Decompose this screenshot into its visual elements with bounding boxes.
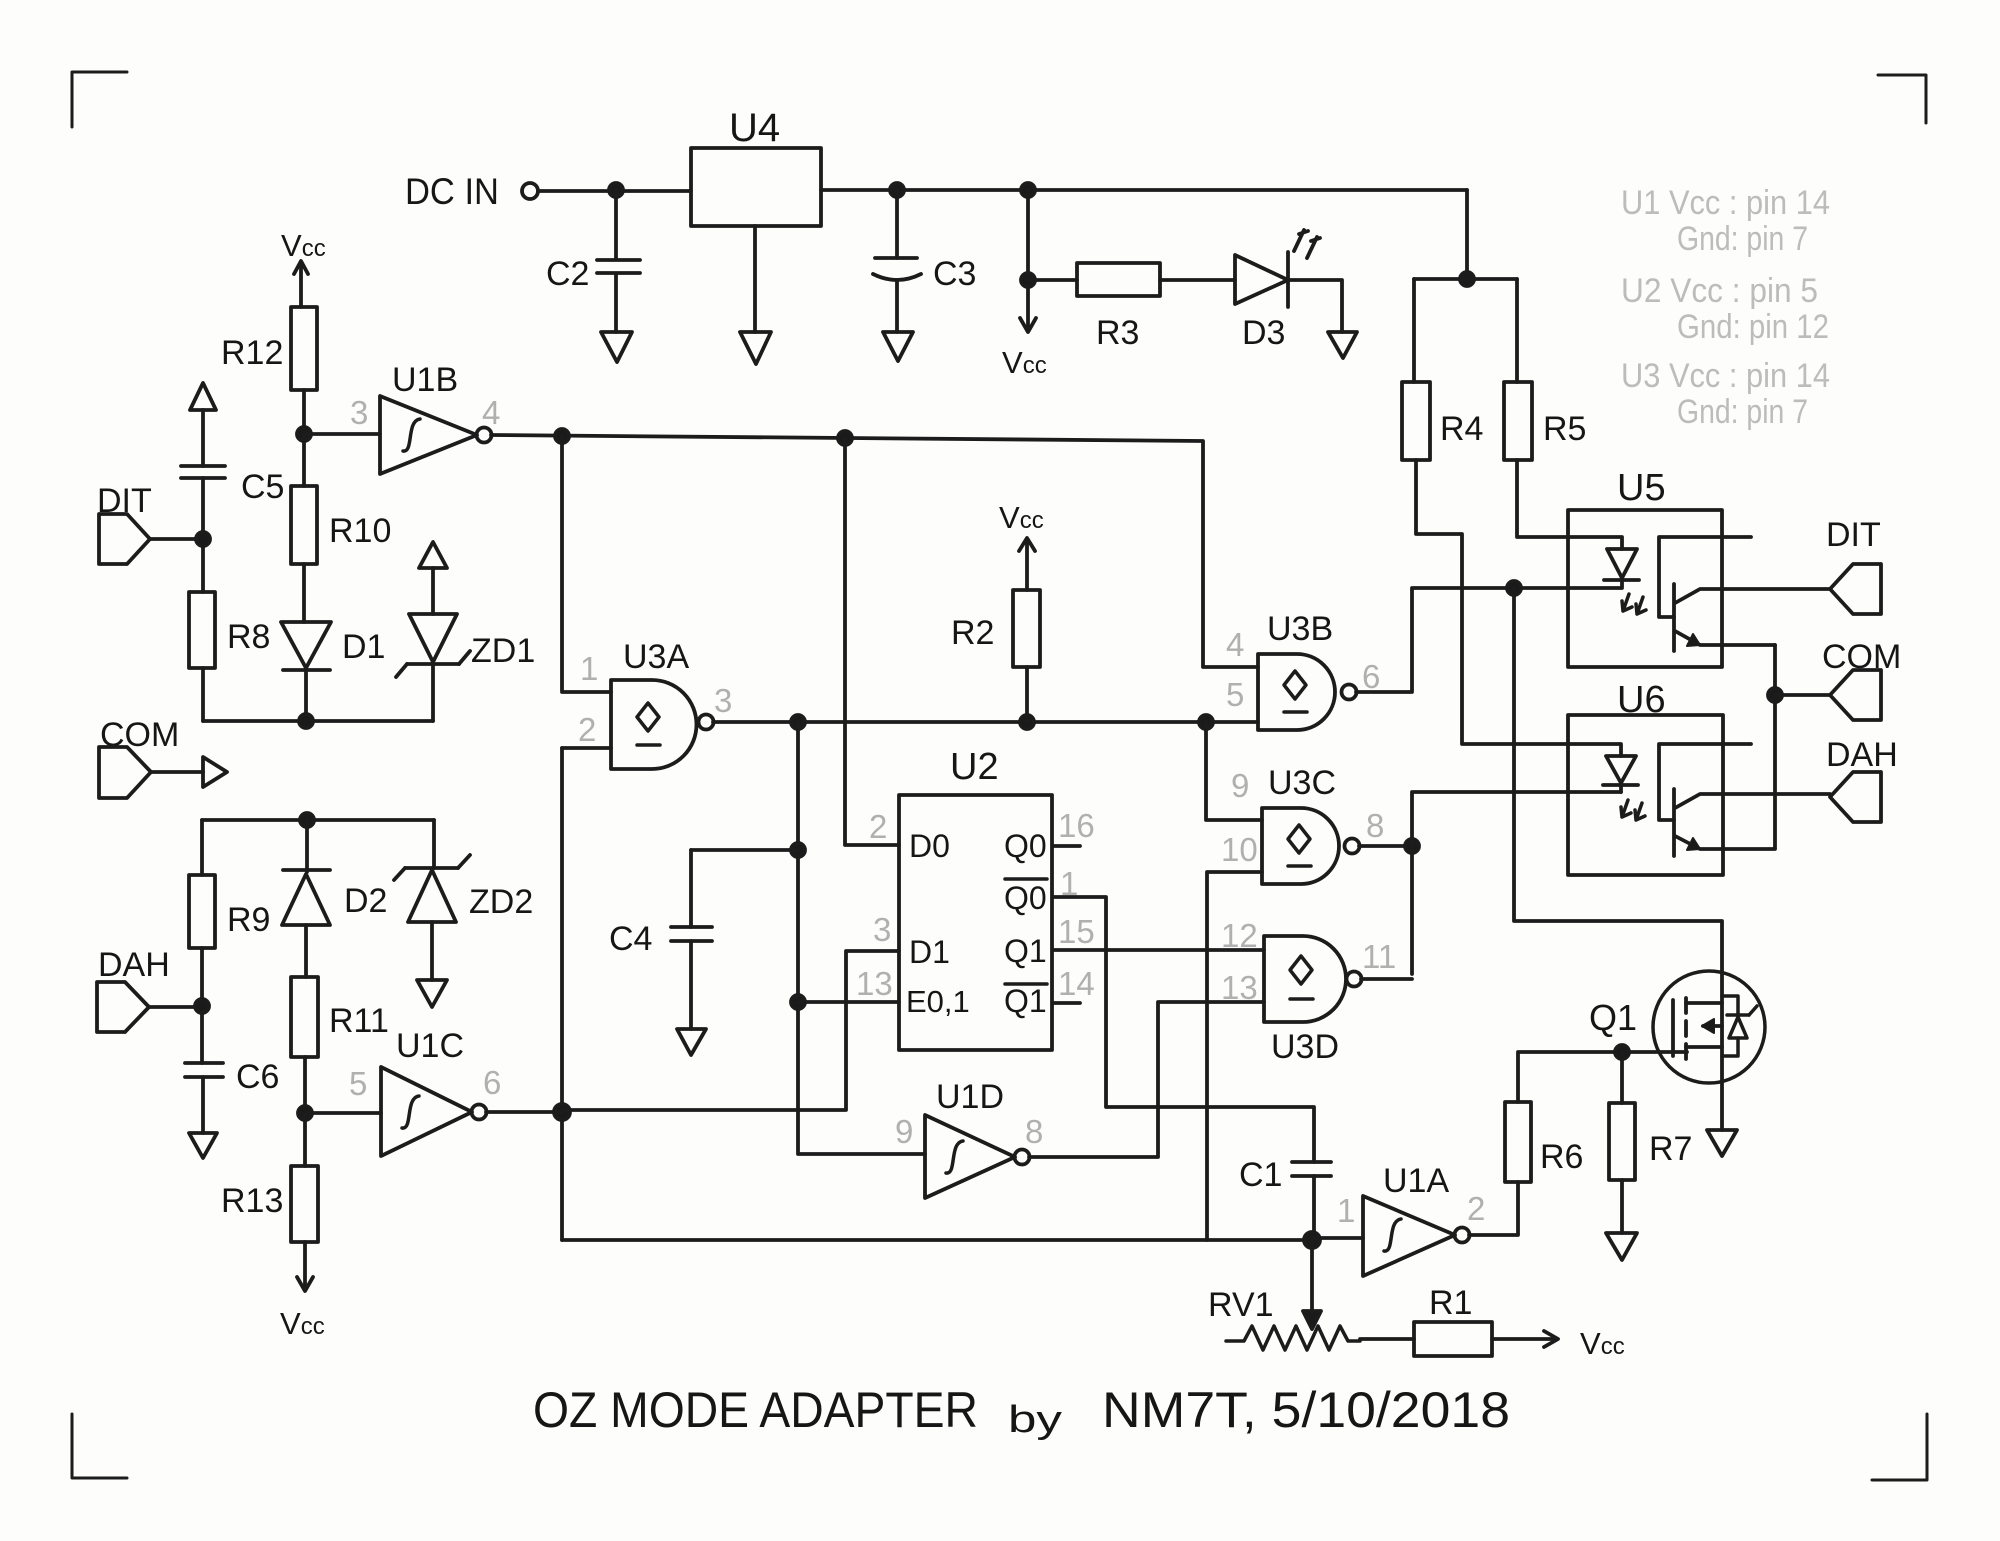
svg-text:U1A: U1A xyxy=(1383,1162,1449,1200)
transistor Q1 gate and channel xyxy=(1673,998,1722,1059)
wire U3A output rail to U3B pin5 xyxy=(713,720,1258,724)
node at C2 tap xyxy=(609,183,623,197)
svg-text:U3C: U3C xyxy=(1268,764,1336,802)
svg-text:DAH: DAH xyxy=(98,946,170,984)
svg-text:C5: C5 xyxy=(241,468,284,506)
transistor Q1 circle xyxy=(1589,971,1765,1083)
svg-text:Gnd: pin 12: Gnd: pin 12 xyxy=(1677,308,1829,346)
node rail to U3A input1 xyxy=(555,429,569,443)
svg-text:3: 3 xyxy=(873,911,891,948)
potentiometer RV1 body xyxy=(1226,1326,1360,1350)
potentiometer RV1 wiper xyxy=(1208,1240,1321,1329)
ground below C3 xyxy=(883,332,913,361)
svg-text:R11: R11 xyxy=(329,1002,389,1040)
svg-text:ZD1: ZD1 xyxy=(471,632,535,670)
svg-text:U5: U5 xyxy=(1617,467,1666,509)
optocoupler U5 LED xyxy=(1604,549,1639,588)
svg-text:1: 1 xyxy=(1337,1192,1355,1229)
wire R5 to U5 LED anode xyxy=(1517,460,1622,549)
wire RV1 to R1 xyxy=(1360,1337,1414,1341)
wire DC IN input rail xyxy=(538,190,1467,191)
resistor R4 xyxy=(1402,382,1483,460)
svg-text:Q0: Q0 xyxy=(1004,880,1047,916)
nand U3D xyxy=(1264,936,1362,1066)
svg-text:5: 5 xyxy=(1226,676,1244,713)
svg-text:3: 3 xyxy=(350,394,368,431)
svg-text:R8: R8 xyxy=(227,618,270,656)
optocoupler U5 phototransistor xyxy=(1659,537,1830,651)
svg-text:OZ MODE ADAPTER: OZ MODE ADAPTER xyxy=(533,1382,978,1438)
svg-text:U3B: U3B xyxy=(1267,610,1333,648)
pin numbers U3D 12 13 11 xyxy=(1221,917,1396,1006)
node U1B input xyxy=(297,427,311,441)
svg-text:U3D: U3D xyxy=(1271,1028,1339,1066)
wire D3 to ground xyxy=(1288,280,1342,332)
resistor R2 xyxy=(951,590,1040,667)
svg-text:U4: U4 xyxy=(729,106,780,150)
svg-text:R7: R7 xyxy=(1649,1130,1692,1168)
diode D2 xyxy=(282,820,387,925)
nand U3B xyxy=(1258,610,1357,730)
wire R2 to rail xyxy=(1025,667,1029,722)
resistor R1 xyxy=(1414,1284,1492,1356)
pin numbers U1D 9 8 xyxy=(895,1113,1043,1150)
inverter U1D xyxy=(925,1078,1030,1198)
svg-text:DIT: DIT xyxy=(1826,516,1881,554)
svg-text:Gnd: pin 7: Gnd: pin 7 xyxy=(1677,220,1808,258)
power Vcc below R13 xyxy=(280,1242,325,1341)
transistor Q1 body diode xyxy=(1722,996,1757,1056)
capacitor C2 xyxy=(546,190,640,332)
svg-text:U2: U2 xyxy=(950,746,999,788)
wire DAH pull network top tie xyxy=(202,818,434,822)
svg-text:U1 Vcc : pin 14: U1 Vcc : pin 14 xyxy=(1621,184,1830,222)
wire U1B output rail to U3B pin4 xyxy=(491,435,1258,667)
svg-text:2: 2 xyxy=(1467,1190,1485,1227)
node U5 cathode to Q1 drain xyxy=(1507,581,1521,595)
pin numbers U2 left 2 3 13 xyxy=(856,808,893,1002)
svg-text:U1C: U1C xyxy=(396,1027,464,1065)
svg-text:10: 10 xyxy=(1221,831,1258,868)
svg-text:U3A: U3A xyxy=(623,638,689,676)
wire Q1bar stub pin14 xyxy=(1053,1001,1080,1005)
wire to COM connector xyxy=(1775,693,1830,697)
wire R12 to node xyxy=(302,390,306,434)
ground below C6 xyxy=(189,1133,217,1158)
connector DAH right xyxy=(1826,736,1898,822)
svg-text:R1: R1 xyxy=(1429,1284,1472,1322)
wire R10 to D1 xyxy=(302,564,306,622)
note U1 U2 U3 supply pins (gray) xyxy=(1621,184,1830,431)
wire C5 to DIT node xyxy=(201,478,205,592)
wire U3D output xyxy=(1361,977,1412,981)
connector DAH left xyxy=(97,946,202,1032)
svg-text:4: 4 xyxy=(1226,626,1244,663)
node at Vcc tap xyxy=(1021,183,1035,197)
wire R4 R5 top tie xyxy=(1414,279,1517,382)
node COM tie xyxy=(1768,688,1782,702)
power Vcc above R2 xyxy=(999,500,1044,590)
wire R6 to Q1 gate rail xyxy=(1518,1052,1687,1102)
node DAH xyxy=(195,999,209,1013)
wire U3A input2 riser from U1C net xyxy=(562,748,611,1240)
node U3C input9 tap xyxy=(1199,715,1213,729)
nand U3A xyxy=(611,638,714,769)
svg-text:R12: R12 xyxy=(221,334,283,372)
wire to R3 xyxy=(1028,278,1077,282)
wire ZD2 to ground xyxy=(430,922,434,980)
svg-text:6: 6 xyxy=(1362,658,1380,695)
wire U3C input9 xyxy=(1206,722,1262,820)
nand U3C xyxy=(1262,764,1360,884)
svg-text:D0: D0 xyxy=(909,828,950,864)
zener ZD1 xyxy=(396,614,535,677)
optocoupler U6 box xyxy=(1568,679,1723,875)
svg-text:C4: C4 xyxy=(609,920,652,958)
resistor R9 xyxy=(189,820,270,948)
svg-text:R9: R9 xyxy=(227,901,270,939)
wire U3B output to U5 cathode xyxy=(1356,588,1621,692)
latch U2 xyxy=(899,746,1052,1050)
node D1 bottom xyxy=(299,714,313,728)
inverter U1C xyxy=(305,1027,487,1156)
svg-text:U1D: U1D xyxy=(936,1078,1004,1116)
svg-text:U2 Vcc : pin 5: U2 Vcc : pin 5 xyxy=(1621,272,1818,310)
svg-text:by: by xyxy=(1008,1399,1062,1441)
resistor R13 xyxy=(221,1113,318,1242)
connector DIT left xyxy=(97,482,203,564)
wire Q0 stub pin16 xyxy=(1053,844,1080,848)
wire x798 riser to U1D input xyxy=(798,722,925,1154)
node C4 tap xyxy=(791,843,805,857)
svg-text:C2: C2 xyxy=(546,255,589,293)
power arrow above C5 xyxy=(190,383,216,466)
diode D1 xyxy=(281,622,385,670)
resistor R11 xyxy=(291,977,389,1057)
title text xyxy=(533,1382,1510,1441)
svg-text:15: 15 xyxy=(1058,913,1095,950)
wire R8 to bottom xyxy=(201,668,205,721)
wire U3C output xyxy=(1359,844,1412,848)
ground below C2 xyxy=(601,332,632,362)
pin numbers U3A 1 2 3 xyxy=(578,650,732,748)
svg-text:8: 8 xyxy=(1025,1113,1043,1150)
wire ZD1 to bottom xyxy=(431,666,435,721)
node U3C U3D outputs xyxy=(1405,839,1419,853)
optocoupler U5 box xyxy=(1568,467,1722,667)
wire DIT pulldown bottom tie xyxy=(203,719,433,723)
inverter U1A xyxy=(1312,1162,1470,1276)
capacitor C1 xyxy=(1239,1156,1331,1194)
node at C3 tap xyxy=(890,183,904,197)
svg-text:14: 14 xyxy=(1058,965,1095,1002)
power Vcc above R12 xyxy=(281,228,326,307)
connector J DC IN label xyxy=(405,171,499,212)
svg-text:1: 1 xyxy=(580,650,598,687)
wire U1A output to R6 xyxy=(1469,1182,1518,1235)
connector DIT right xyxy=(1826,516,1881,614)
capacitor C5 xyxy=(181,466,284,506)
pin numbers U2 right 16 1 15 14 xyxy=(1058,807,1095,1002)
svg-text:9: 9 xyxy=(1231,767,1249,804)
wire U5 emitter to COM riser xyxy=(1773,645,1777,848)
pin numbers U1C 5 6 xyxy=(349,1064,501,1102)
ground below R7 xyxy=(1606,1233,1637,1260)
resistor R3 xyxy=(1077,263,1160,352)
wire D1 to bottom xyxy=(304,670,308,721)
svg-text:R10: R10 xyxy=(329,512,391,550)
svg-text:RV1: RV1 xyxy=(1208,1286,1274,1324)
svg-text:D2: D2 xyxy=(344,882,387,920)
resistor R12 xyxy=(221,307,317,390)
LED D3 xyxy=(1235,230,1320,352)
zener ZD2 xyxy=(394,820,533,922)
resistor R6 xyxy=(1505,1102,1583,1182)
wire D2 to R11 xyxy=(304,925,308,977)
svg-text:R3: R3 xyxy=(1096,314,1139,352)
svg-text:12: 12 xyxy=(1221,917,1258,954)
node U3A rail at x798 xyxy=(791,715,805,729)
wire input rail corner down to R4 R5 xyxy=(1465,190,1469,279)
svg-text:DC IN: DC IN xyxy=(405,171,499,212)
svg-text:Q1: Q1 xyxy=(1004,933,1047,969)
capacitor C6 xyxy=(185,1058,279,1096)
pin numbers U3B 4 5 6 xyxy=(1226,626,1380,713)
svg-text:Q1: Q1 xyxy=(1004,983,1047,1019)
wire R9 to DAH node xyxy=(200,948,204,1063)
svg-text:R13: R13 xyxy=(221,1182,283,1220)
resistor R8 xyxy=(189,592,270,668)
ground below C4 xyxy=(677,1029,706,1055)
wire C4 to ground xyxy=(689,941,693,1029)
COM off page arrow xyxy=(203,757,227,787)
svg-text:D3: D3 xyxy=(1242,314,1285,352)
wire U4 ground lead xyxy=(753,226,757,332)
svg-text:C1: C1 xyxy=(1239,1156,1282,1194)
svg-text:C3: C3 xyxy=(933,255,976,293)
wire R3 to D3 xyxy=(1160,278,1235,282)
optocoupler U6 light arrows xyxy=(1621,800,1645,820)
wire C4 branch xyxy=(691,850,798,927)
connector COM left xyxy=(99,716,203,798)
svg-text:U1B: U1B xyxy=(392,361,458,399)
svg-text:8: 8 xyxy=(1366,807,1384,844)
ground after D3 xyxy=(1328,332,1357,358)
svg-text:4: 4 xyxy=(482,394,500,431)
optocoupler U6 LED xyxy=(1603,756,1638,792)
wire U3C U3D output riser to U6 cathode xyxy=(1412,792,1621,974)
ground below Q1 xyxy=(1707,1130,1737,1156)
resistor R5 xyxy=(1504,382,1586,460)
node R2 bottom xyxy=(1020,715,1034,729)
optocoupler U5 light arrows xyxy=(1622,594,1646,614)
svg-text:11: 11 xyxy=(1362,938,1396,975)
regulator U4 xyxy=(691,106,821,226)
svg-text:3: 3 xyxy=(714,682,732,719)
wire C1 to node xyxy=(1312,1176,1316,1240)
svg-text:D1: D1 xyxy=(909,934,950,970)
svg-text:R4: R4 xyxy=(1440,410,1483,448)
pin numbers U1A 1 2 xyxy=(1337,1190,1485,1229)
power Vcc stub from input rail xyxy=(1002,190,1047,380)
connector COM right xyxy=(1822,638,1901,720)
node U1A input xyxy=(1304,1232,1320,1248)
svg-text:NM7T, 5/10/2018: NM7T, 5/10/2018 xyxy=(1102,1382,1510,1438)
node E01 tap xyxy=(791,995,805,1009)
svg-text:6: 6 xyxy=(483,1064,501,1101)
pin numbers U3C 9 10 8 xyxy=(1221,767,1384,868)
wire R7 to ground xyxy=(1620,1180,1624,1233)
wire Q1 source to ground xyxy=(1720,972,1724,1130)
wire E01 to U2 xyxy=(798,1000,899,1004)
node R7 tap xyxy=(1615,1045,1629,1059)
wire Q0bar to C1 xyxy=(1053,897,1314,1162)
wire U3A input1 drop xyxy=(562,436,611,692)
resistor R7 xyxy=(1609,1052,1692,1180)
capacitor C3 (polarized) xyxy=(873,190,976,332)
svg-text:Gnd: pin 7: Gnd: pin 7 xyxy=(1677,393,1808,431)
node D2 top xyxy=(300,813,314,827)
DC IN terminal circle xyxy=(522,183,538,199)
wire node to U1B xyxy=(304,432,380,436)
ground below ZD2 xyxy=(417,980,447,1007)
svg-text:ZD2: ZD2 xyxy=(469,883,533,921)
svg-text:2: 2 xyxy=(578,711,596,748)
wire U1C output rail to U2 D1 xyxy=(486,951,899,1112)
node R4 R5 split xyxy=(1460,272,1474,286)
svg-text:16: 16 xyxy=(1058,807,1095,844)
power arrow above ZD1 xyxy=(419,542,447,614)
svg-text:13: 13 xyxy=(856,965,893,1002)
svg-text:U3 Vcc : pin 14: U3 Vcc : pin 14 xyxy=(1621,357,1830,395)
node R3 tap xyxy=(1021,273,1035,287)
wire bottom timing net xyxy=(562,1238,1312,1242)
svg-text:C6: C6 xyxy=(236,1058,279,1096)
svg-text:9: 9 xyxy=(895,1113,913,1150)
ground below U4 xyxy=(740,332,771,364)
node U1C input xyxy=(298,1106,312,1120)
node DIT xyxy=(196,532,210,546)
resistor R10 xyxy=(291,434,391,564)
svg-text:DAH: DAH xyxy=(1826,736,1898,774)
svg-text:5: 5 xyxy=(349,1065,367,1102)
node U1C output on riser xyxy=(554,1104,570,1120)
optocoupler U6 phototransistor xyxy=(1659,744,1830,856)
svg-text:U6: U6 xyxy=(1617,679,1666,721)
svg-text:R5: R5 xyxy=(1543,410,1586,448)
wire R11 to U1C node xyxy=(303,1057,307,1113)
pin numbers U1B 3 4 xyxy=(350,394,500,431)
svg-text:R6: R6 xyxy=(1540,1138,1583,1176)
inverter U1B xyxy=(380,361,492,474)
wire U2 D0 feed xyxy=(845,438,899,845)
svg-text:Q0: Q0 xyxy=(1004,828,1047,864)
svg-text:R2: R2 xyxy=(951,614,994,652)
svg-text:E0,1: E0,1 xyxy=(906,984,970,1019)
wire R4 to U6 LED anode xyxy=(1416,460,1621,756)
wire C6 to ground xyxy=(201,1077,205,1133)
wire U3C input10 from bottom net xyxy=(1207,872,1262,1240)
capacitor C4 xyxy=(609,920,712,958)
power Vcc arrow right of R1 xyxy=(1492,1326,1625,1361)
svg-text:D1: D1 xyxy=(342,628,385,666)
node rail to U2 D0 xyxy=(838,431,852,445)
svg-text:2: 2 xyxy=(869,808,887,845)
wire Q1 to U3D pin12 xyxy=(1053,948,1264,952)
wire U1D output to U3D pin13 xyxy=(1029,1002,1264,1157)
wire drain drop from node xyxy=(1514,588,1722,972)
svg-text:Q1: Q1 xyxy=(1589,997,1637,1038)
